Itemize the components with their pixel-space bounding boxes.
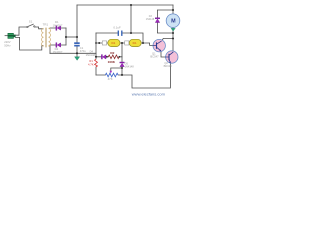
gate U1:A input box — [102, 41, 106, 45]
label R1 4.7K — [88, 59, 94, 67]
svg-text:TR1: TR1 — [43, 22, 49, 26]
transistor Q2 — [165, 51, 178, 63]
capacitor C1 — [74, 42, 80, 46]
diode D2 — [56, 43, 61, 48]
wire pot wiper link — [111, 68, 122, 71]
diode D1 — [56, 26, 61, 31]
svg-text:1N4148: 1N4148 — [146, 18, 155, 21]
wire middle box left vertical — [95, 33, 97, 75]
wire ground rail — [50, 52, 96, 54]
svg-text:R2: R2 — [110, 51, 114, 55]
wire rectifier output link — [66, 36, 77, 38]
gate U1:B — [129, 39, 141, 46]
diode D5 — [120, 62, 125, 67]
svg-text:220V: 220V — [4, 40, 10, 44]
wire Q1 emitter to Q2 base — [161, 51, 165, 57]
wire top rail — [77, 4, 173, 6]
AC source 220V — [5, 33, 16, 38]
wire box bottom and emitter return — [96, 63, 170, 88]
motor M1 — [166, 14, 180, 28]
wire freewheel branch — [157, 10, 173, 33]
wire +V drop x131 — [130, 5, 132, 33]
svg-text:1N4007: 1N4007 — [53, 50, 63, 54]
svg-text:1N4148: 1N4148 — [125, 65, 135, 69]
svg-text:BC547: BC547 — [150, 55, 159, 59]
diode D4 — [101, 55, 106, 59]
wire gate row — [96, 43, 153, 45]
svg-text:100K: 100K — [108, 60, 116, 64]
svg-text:R1: R1 — [89, 59, 93, 63]
wire diode-resistor row — [96, 56, 122, 58]
wire source return — [15, 37, 43, 50]
svg-text:1N4148: 1N4148 — [86, 53, 96, 57]
junction dots — [65, 4, 174, 76]
gate U1:B input box — [125, 41, 129, 45]
transistor Q1 — [153, 39, 166, 51]
label R2 100K — [108, 51, 116, 64]
wire +feed down to C1 node — [76, 5, 78, 57]
transformer TR1 — [42, 28, 51, 48]
labels — [4, 20, 172, 81]
svg-text:S1: S1 — [29, 20, 33, 24]
wire D2 leads — [50, 44, 66, 46]
svg-text:BD139: BD139 — [164, 64, 172, 68]
svg-text:M: M — [171, 19, 176, 25]
wire right bus motor — [172, 5, 174, 51]
ground — [75, 57, 80, 61]
svg-text:470u: 470u — [80, 49, 86, 53]
switch S1 — [27, 24, 35, 28]
wire D1 leads — [50, 27, 66, 29]
svg-text:1N4007: 1N4007 — [53, 23, 63, 27]
svg-text:47K: 47K — [108, 77, 113, 81]
svg-text:0.1uF: 0.1uF — [113, 26, 121, 30]
wire secondary drop — [49, 45, 51, 53]
potentiometer RV1 — [105, 73, 118, 77]
svg-text:www.elecfans.com: www.elecfans.com — [132, 92, 166, 97]
wire middle box top with C2 gap — [96, 33, 143, 43]
capacitor C2 — [118, 31, 123, 36]
svg-text:4.7K: 4.7K — [88, 63, 94, 67]
gate U1:A — [108, 39, 120, 46]
wire right branch x122 — [121, 43, 123, 75]
wire Q1 collector link — [162, 39, 173, 41]
potentiometer wiper arrow — [110, 71, 113, 74]
wire source to switch — [15, 27, 26, 35]
wire diode cathode bus — [65, 28, 67, 45]
motor terminal arrow — [171, 28, 175, 31]
resistor R1 — [95, 59, 98, 67]
diode D3 — [155, 18, 160, 23]
svg-text:IC1: IC1 — [111, 42, 116, 45]
svg-text:IC1: IC1 — [133, 42, 138, 45]
resistor R2 — [108, 55, 119, 59]
svg-text:50Hz: 50Hz — [4, 43, 11, 47]
wire switch to transformer — [35, 27, 43, 29]
